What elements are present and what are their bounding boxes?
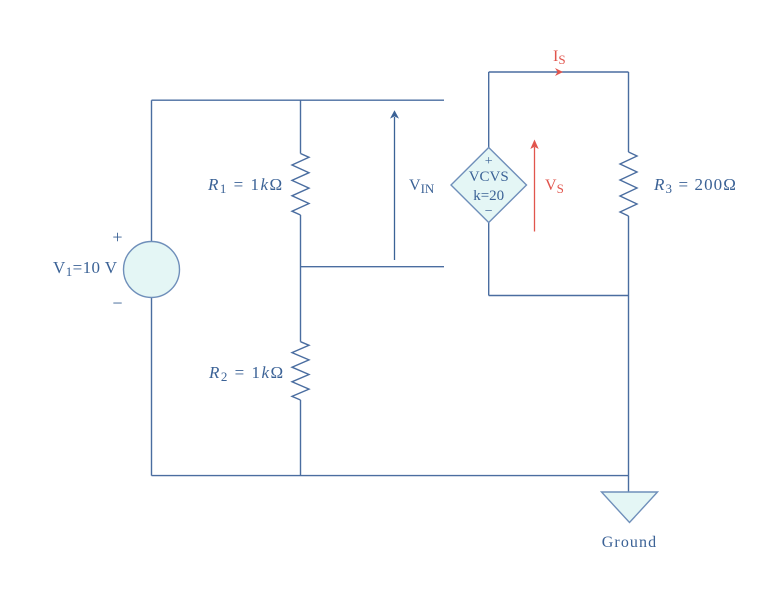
node: middle tap wire [301, 266, 445, 268]
svg-text:Ground: Ground [602, 534, 657, 551]
voltage source V1 [124, 242, 180, 298]
wire: R2 bottom lead [300, 400, 302, 476]
arrow VS (red) [534, 147, 536, 232]
svg-text:k=20: k=20 [473, 188, 504, 204]
VCVS dependent source U1 diamond [451, 148, 527, 223]
svg-text:−: − [112, 293, 122, 313]
wire: R1-R2 middle segment [300, 215, 302, 342]
wire: R3 bottom lead down to ground node [628, 216, 630, 476]
resistor R2 [292, 342, 309, 400]
svg-text:+: + [112, 227, 122, 247]
wire: bottom rail [152, 475, 629, 477]
svg-text:R3 = 200Ω: R3 = 200Ω [653, 175, 737, 196]
svg-text:R2 = 1kΩ: R2 = 1kΩ [208, 363, 285, 384]
svg-text:R1 = 1kΩ: R1 = 1kΩ [207, 175, 284, 196]
wire: VCVS loop bottom rail [489, 295, 629, 297]
wire: left vertical top (V1 to top rail) [151, 100, 153, 241]
svg-text:VIN: VIN [409, 177, 435, 196]
svg-text:+: + [485, 154, 493, 169]
wire: R3 top lead [628, 72, 630, 152]
wire: VCVS loop top rail [489, 71, 629, 73]
wire: VCVS top lead [488, 72, 490, 148]
arrow VIN measurement [394, 117, 396, 260]
resistor R1 [292, 154, 309, 216]
wire: top rail [152, 99, 445, 101]
svg-text:V1=10 V: V1=10 V [53, 258, 118, 279]
svg-text:−: − [485, 204, 493, 219]
resistor R3 [620, 152, 637, 216]
ground symbol [602, 492, 658, 523]
svg-text:VS: VS [545, 177, 564, 196]
wire: left vertical bottom (V1 to bottom rail) [151, 298, 153, 476]
wire: VCVS bottom lead [488, 223, 490, 296]
arrow IS (red) on top rail [555, 68, 563, 76]
wire: ground stub [628, 476, 630, 492]
wire: R1 top lead [300, 100, 302, 153]
svg-text:IS: IS [553, 48, 566, 67]
svg-text:VCVS: VCVS [469, 169, 509, 185]
